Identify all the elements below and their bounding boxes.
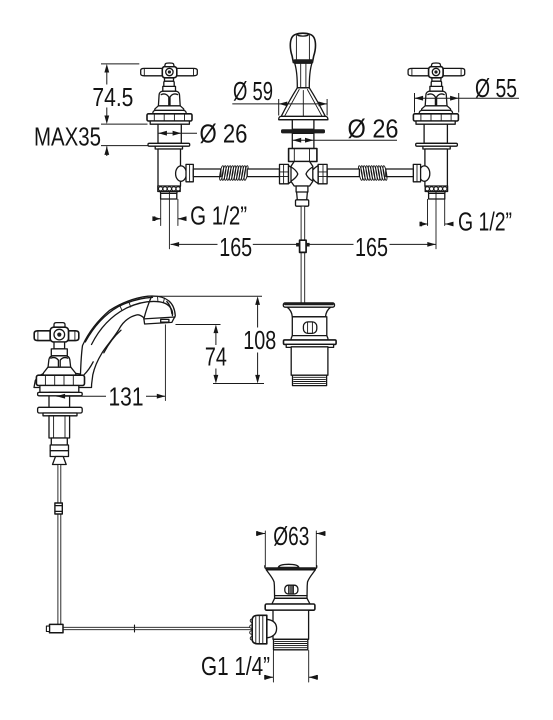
pop-up thread [293, 375, 327, 385]
dim 165 (left) [171, 232, 300, 262]
dim dia55 (right valve flange) [415, 73, 520, 112]
svg-text:Ø 26: Ø 26 [348, 114, 399, 144]
valve V1 stem (dia 26) [158, 124, 181, 143]
drain thread G1 1/4 [274, 639, 308, 650]
svg-text:74.5: 74.5 [92, 82, 133, 112]
side locknut flange [38, 407, 83, 413]
pop-up neck [287, 307, 330, 317]
svg-text:108: 108 [243, 325, 276, 355]
cone base [281, 88, 325, 117]
flexible hose H1 (left) [186, 164, 294, 183]
side bell [53, 457, 67, 465]
rod coupling C1 [55, 503, 62, 514]
dim MAX35 [34, 122, 149, 157]
flexible hose H2 (right) : mirror of H1 [313, 164, 421, 183]
pop-up cap [283, 303, 334, 307]
dim 74.5 [92, 64, 147, 124]
valve V1 side port boss [176, 166, 187, 181]
pop-up lower body [291, 347, 328, 375]
dim dia26 (left valve stem) [158, 119, 247, 149]
dim dia63 [256, 521, 325, 567]
dim 74 (side) [176, 325, 227, 384]
side body [49, 416, 70, 438]
stem above deck [292, 120, 314, 130]
valve V1 threaded tail block [160, 192, 177, 194]
drain bevel flare [272, 598, 310, 604]
hose H1 corrugated section [219, 165, 249, 180]
side handle bar [34, 331, 50, 341]
svg-text:165: 165 [355, 232, 388, 262]
ball-rod knurled nut [250, 619, 253, 622]
knob neck [295, 63, 312, 88]
dim 165 (right) [306, 232, 436, 262]
rod joint tick [134, 625, 136, 632]
pop-up upper body [292, 317, 327, 336]
hose H1 tee nut [280, 164, 289, 183]
valve V1 locknut flanges [148, 143, 190, 146]
valve V1 body tube [158, 149, 181, 186]
side handle top cap [54, 323, 65, 328]
drain flat dome [278, 564, 299, 567]
dim 108 (side) [152, 296, 276, 383]
pop-up bevel ring [291, 336, 328, 342]
pop-up flange [284, 340, 337, 345]
drain flange [265, 604, 315, 610]
spout interior contour lines [85, 297, 152, 342]
pop-up rod (upper) [301, 206, 305, 240]
rod coupling C2 (on 165 line) [296, 240, 310, 252]
svg-text:MAX35: MAX35 [34, 122, 101, 152]
valve V1 skirt [155, 106, 184, 111]
valve V1 beaded ring [158, 186, 180, 192]
svg-text:G1 1/4”: G1 1/4” [201, 651, 270, 681]
dim 131 [57, 325, 166, 412]
drain window + pin [285, 585, 298, 594]
side handle stem [54, 342, 65, 349]
valve V1 cross handle [165, 78, 174, 81]
deck flange (dark) [281, 129, 325, 133]
pop-up rod (lower) [301, 252, 305, 303]
hose H1 pipe [193, 169, 221, 177]
svg-text:Ø63: Ø63 [273, 521, 309, 551]
tee collar [296, 200, 309, 206]
hose H1 valve nut [186, 164, 193, 181]
side bonnet [48, 356, 71, 369]
elbow E1 [50, 624, 64, 632]
valve V1 bonnet (hex) [158, 91, 180, 106]
hose H1 cone into tee [289, 166, 295, 184]
dim G1 1/4 [201, 651, 318, 683]
side compression fitting [50, 445, 68, 451]
horizontal rod to drain [63, 627, 252, 629]
drain funnel neck [266, 570, 315, 599]
svg-text:Ø 59: Ø 59 [233, 76, 273, 106]
side washer plate [38, 392, 83, 395]
spout + base silhouette [34, 296, 175, 387]
valve V1 neck [163, 86, 176, 91]
dim G 1/2 (left) [152, 201, 247, 231]
dim dia59 (cone) [232, 76, 327, 116]
dim dia26 (center stem) [293, 114, 399, 144]
svg-text:74: 74 [205, 342, 227, 372]
hex nut N1 [289, 149, 317, 162]
knob base dark band [293, 59, 313, 63]
valve V2 (right, hot) : mirror of V1 [408, 63, 465, 249]
pull rod (long) [58, 465, 61, 627]
cone bottom rim [279, 116, 328, 119]
svg-text:G 1/2”: G 1/2” [190, 201, 247, 231]
tee body [291, 162, 313, 187]
svg-text:Ø 55: Ø 55 [475, 73, 517, 103]
dim G 1/2 (right) [420, 207, 513, 237]
tee lower stub [296, 186, 308, 192]
svg-text:165: 165 [219, 232, 252, 262]
valve V1 (left, cold) [141, 63, 198, 249]
svg-text:Ø 26: Ø 26 [200, 119, 248, 149]
hose H1 pipe to tee [247, 169, 279, 177]
valve V1 centerline [168, 192, 170, 249]
spout mouth edge [144, 317, 175, 319]
svg-text:G 1/2”: G 1/2” [458, 207, 512, 237]
valve V1 G1/2 extension lines [161, 199, 178, 225]
ball-rod joint cone [267, 619, 277, 638]
side handle hub [50, 327, 68, 342]
knob / pop-up control head [279, 33, 328, 303]
drain cap top bar [265, 567, 316, 570]
side deck flange [36, 375, 84, 385]
svg-text:131: 131 [109, 382, 144, 412]
side skirt [43, 367, 76, 376]
valve V1 flange [147, 114, 192, 121]
stem dia 26 [292, 133, 314, 148]
drain lower body [273, 610, 309, 639]
side below-deck shank [49, 392, 70, 408]
